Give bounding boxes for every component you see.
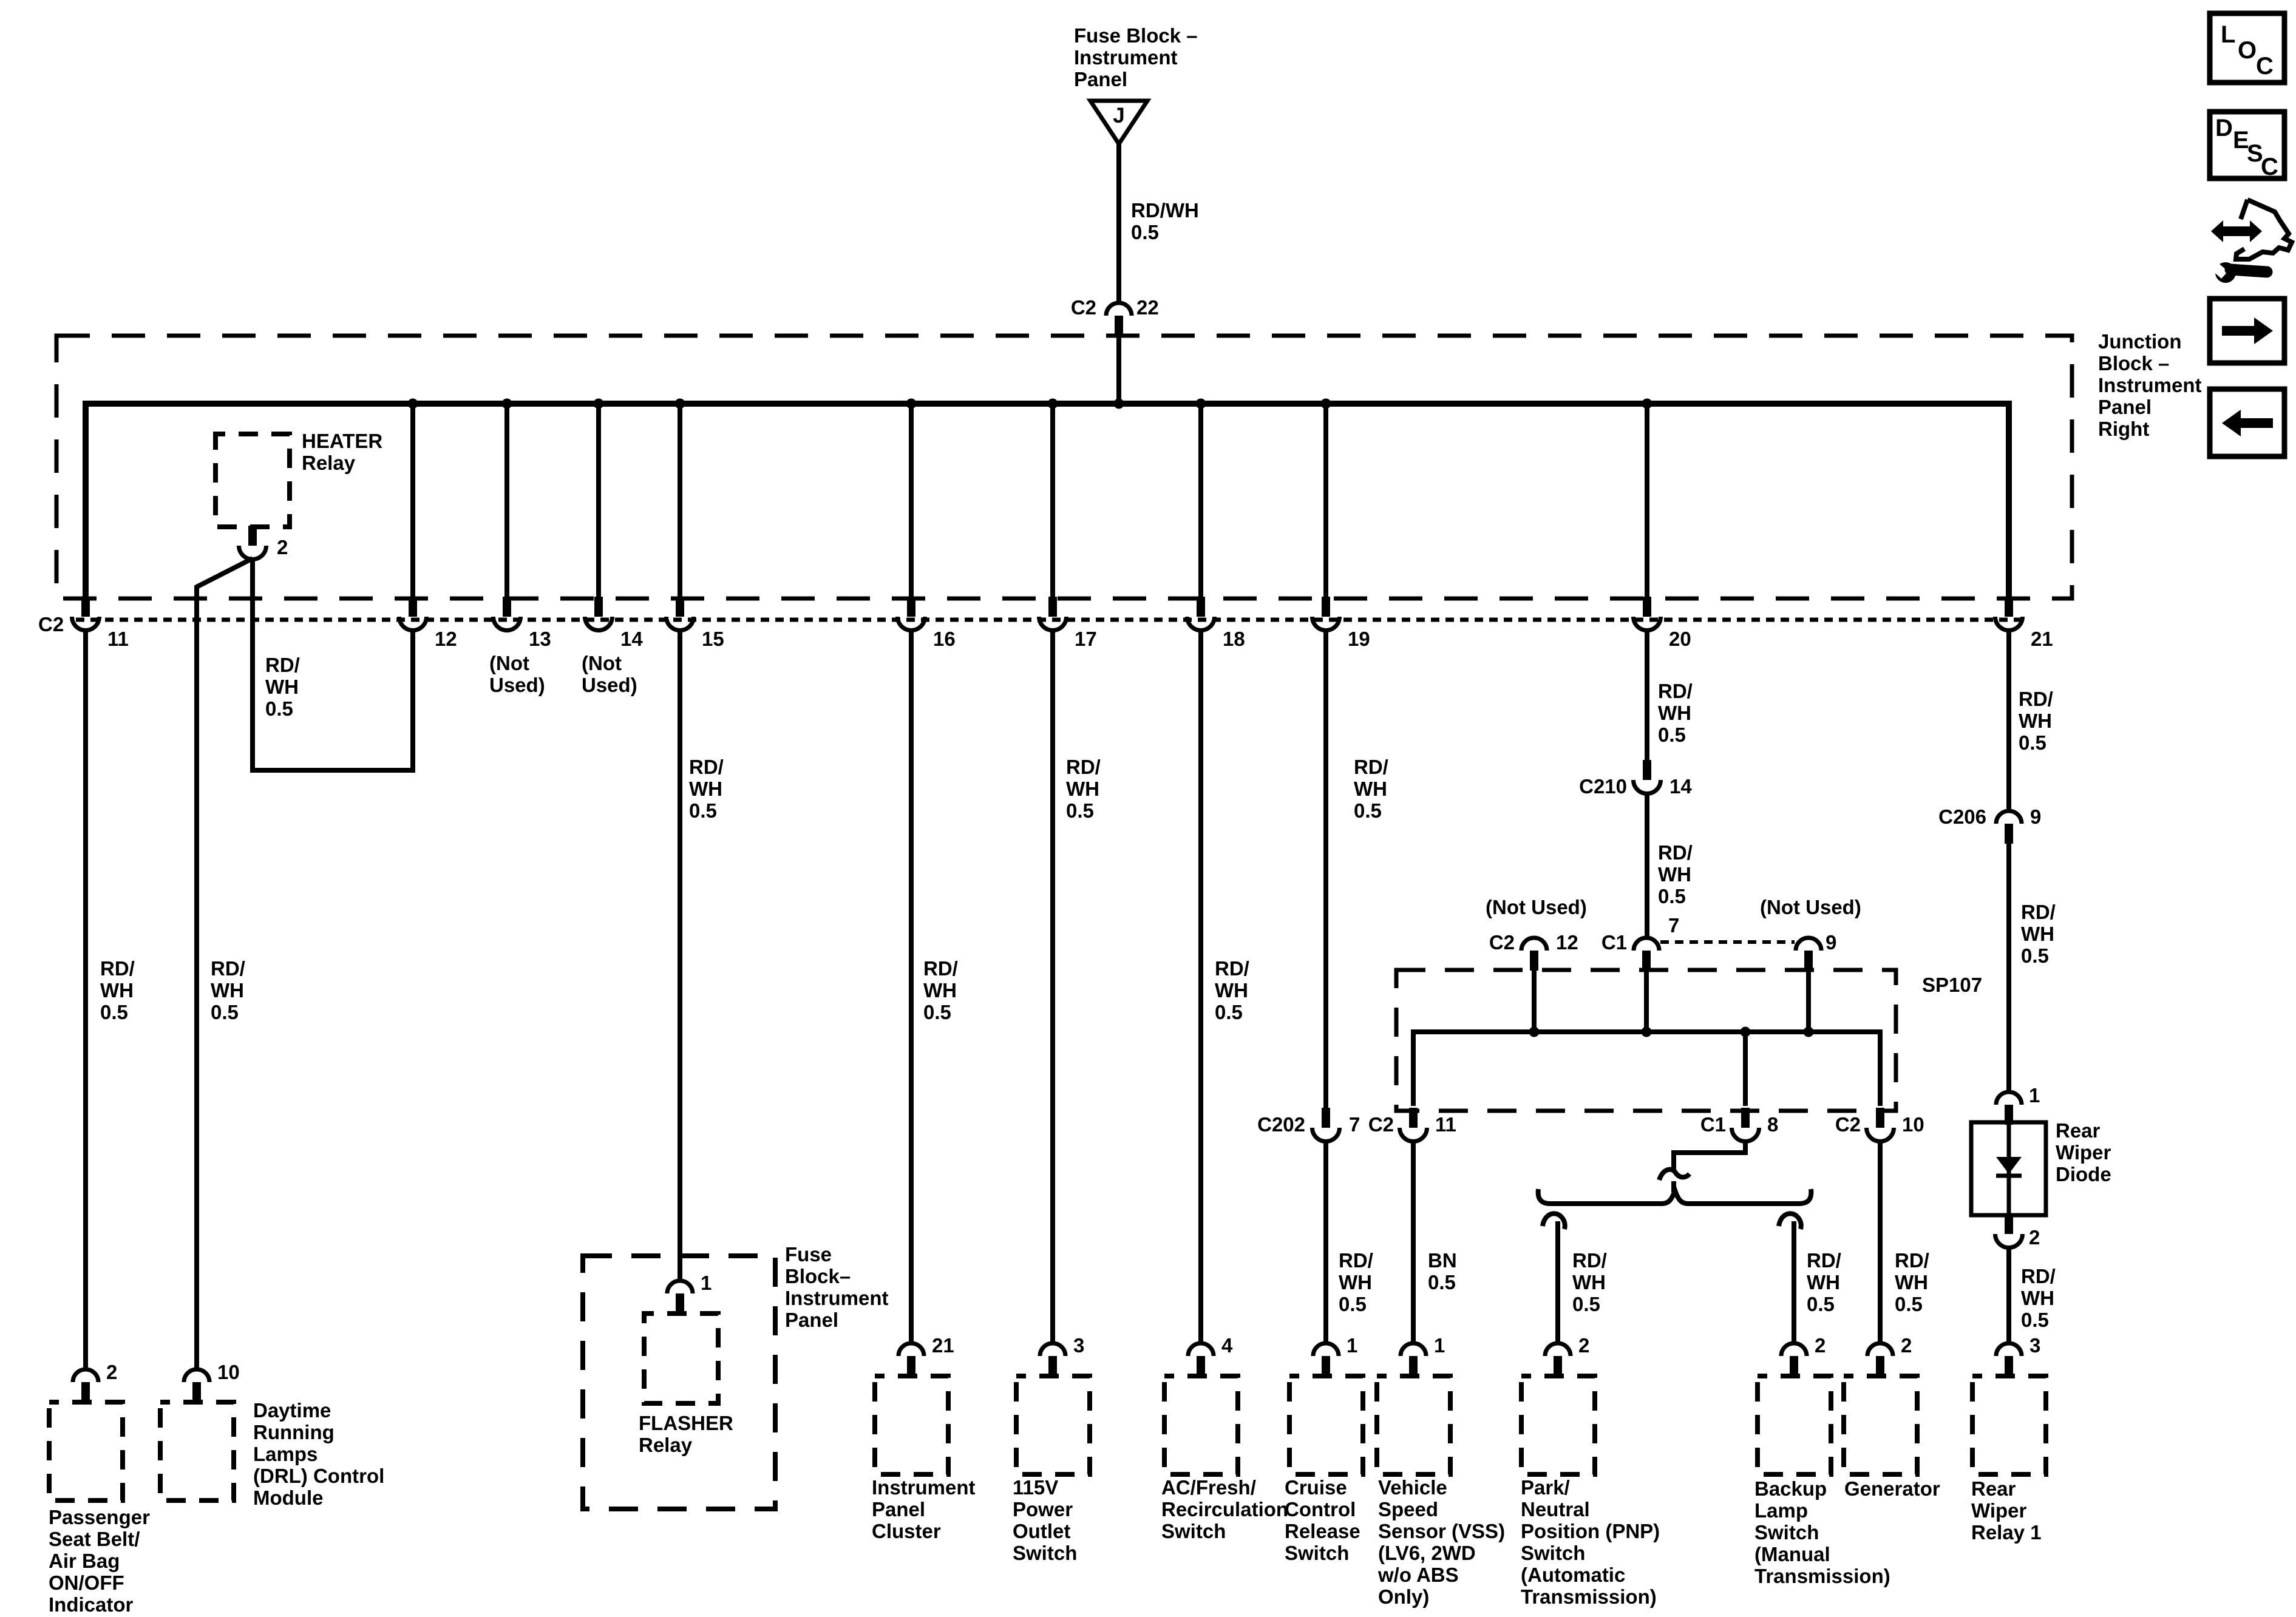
connector C2 pin 19 (junction block bottom) xyxy=(1313,597,1340,631)
wire: RD/WH 0.5 C206 to rear wiper diode xyxy=(2006,844,2011,1092)
Rear Wiper Relay 1 pin connector xyxy=(1996,1343,2022,1376)
svg-text:22: 22 xyxy=(1136,296,1159,319)
svg-text:C1: C1 xyxy=(1601,931,1627,954)
connector C2 pin 18 (junction block bottom) xyxy=(1187,597,1215,631)
svg-text:1: 1 xyxy=(2029,1084,2040,1107)
AC/Fresh/Recirculation Switch (dashed box) xyxy=(1164,1376,1238,1474)
svg-text:20: 20 xyxy=(1669,628,1691,650)
svg-text:RD/WH0.5: RD/WH0.5 xyxy=(1572,1249,1607,1315)
wire: bus drop to pin 18 xyxy=(1198,404,1203,597)
Cruise Control Release Switch pin connector xyxy=(1313,1343,1339,1376)
svg-text:2: 2 xyxy=(1578,1334,1589,1357)
connector C2 pin 12 (junction block bottom) xyxy=(399,597,427,631)
splice pack SP107 (dashed box) xyxy=(1396,970,1896,1111)
svg-text:C: C xyxy=(2256,53,2274,80)
wire: RD/WH 0.5 C210 to splice pack C1-7 xyxy=(1645,793,1649,938)
svg-text:(NotUsed): (NotUsed) xyxy=(582,652,637,696)
svg-text:12: 12 xyxy=(1556,931,1578,954)
junction node at bus / pin 15 drop xyxy=(675,399,685,409)
svg-text:C: C xyxy=(2261,154,2278,180)
connector C2 pin 12 of SP107 (not used) xyxy=(1521,938,1547,971)
connector C2 pin 11 (junction block bottom) xyxy=(72,597,100,631)
svg-text:RD/WH0.5: RD/WH0.5 xyxy=(689,756,724,822)
Backup Lamp Switch (dashed box) xyxy=(1758,1376,1831,1474)
wire break symbol on C1-8 branch xyxy=(1659,1170,1690,1180)
connector C2 pin 11 (SP107 bottom) xyxy=(1400,1108,1427,1142)
svg-text:RD/WH0.5: RD/WH0.5 xyxy=(1066,756,1101,822)
connector C206 pin 9 (inline) xyxy=(1996,811,2022,844)
connector C210 pin 14 (inline) xyxy=(1634,760,1661,794)
svg-text:8: 8 xyxy=(1767,1113,1778,1136)
svg-text:FLASHERRelay: FLASHERRelay xyxy=(639,1412,733,1456)
wire: RD/WH 0.5 heater pin 2 to DRL module xyxy=(197,558,253,1369)
junction node at bus / C2-22 feed xyxy=(1114,399,1124,409)
115V Power Outlet Switch (dashed box) xyxy=(1016,1376,1090,1474)
svg-text:21: 21 xyxy=(932,1334,954,1357)
svg-text:RD/WH0.5: RD/WH0.5 xyxy=(1215,957,1249,1023)
junction node at bus / pin 16 drop xyxy=(906,399,917,409)
svg-text:14: 14 xyxy=(1669,775,1692,798)
option brace (splice alternatives) xyxy=(1538,1189,1812,1204)
Vehicle Speed Sensor (VSS) (dashed box) xyxy=(1377,1376,1450,1474)
wire: bus drop to pin 15 xyxy=(678,404,682,597)
Passenger Seat Belt/Air Bag ON/OFF Indicator (dashed box) xyxy=(49,1402,123,1500)
svg-text:17: 17 xyxy=(1075,628,1097,650)
svg-text:10: 10 xyxy=(1902,1113,1924,1136)
svg-text:(Not Used): (Not Used) xyxy=(1486,896,1587,918)
wire: bus drop to pin 20 xyxy=(1645,404,1649,597)
wire: C2-22 stub to internal bus xyxy=(1116,336,1121,404)
Park/Neutral Position (PNP) Switch pin connector xyxy=(1545,1343,1571,1376)
svg-text:9: 9 xyxy=(1826,931,1836,954)
svg-text:VehicleSpeedSensor (VSS)(LV6,: VehicleSpeedSensor (VSS)(LV6, 2WDw/o ABS… xyxy=(1377,1476,1505,1608)
svg-text:21: 21 xyxy=(2031,628,2053,650)
icon: adjust/repair (hand with wrench) xyxy=(2210,200,2292,283)
wire: RD/WH 0.5 pin 21 to C206 xyxy=(2006,629,2011,811)
wire: RD/WH 0.5 option to PNP switch xyxy=(1555,1221,1560,1343)
wire break hook (backup lamp option) xyxy=(1779,1213,1801,1229)
connector C2 pin 15 (junction block bottom) xyxy=(667,597,694,631)
Park/Neutral Position (PNP) Switch (dashed box) xyxy=(1521,1376,1595,1474)
svg-text:2: 2 xyxy=(1815,1334,1826,1357)
icon: LOC box xyxy=(2210,13,2284,83)
svg-text:C2: C2 xyxy=(1071,296,1096,319)
115V Power Outlet Switch pin connector xyxy=(1040,1343,1065,1376)
junction node at bus / pin 18 drop xyxy=(1196,399,1206,409)
Daytime Running Lamps (DRL) Control Module pin connector xyxy=(184,1369,209,1402)
svg-text:115VPowerOutletSwitch: 115VPowerOutletSwitch xyxy=(1013,1476,1077,1564)
wire: RD/WH 0.5 pin 11 to passenger seat belt indicator xyxy=(83,629,88,1369)
svg-text:2: 2 xyxy=(106,1361,117,1383)
wire: RD/WH 0.5 pin 19 to C202 xyxy=(1323,629,1328,1108)
wire: RD/WH 0.5 pin 15 to flasher relay xyxy=(678,629,682,1281)
svg-text:9: 9 xyxy=(2030,805,2041,828)
svg-text:L: L xyxy=(2221,21,2235,48)
wire: SP107 bus drop to C1-8 xyxy=(1743,1032,1748,1106)
svg-text:PassengerSeat Belt/Air BagON/O: PassengerSeat Belt/Air BagON/OFFIndicato… xyxy=(49,1506,150,1616)
wire: bus drop to pin 19 xyxy=(1323,404,1328,597)
svg-text:10: 10 xyxy=(217,1361,240,1383)
wire: RD/WH 0.5 pin 16 to instrument panel cluster xyxy=(909,629,914,1343)
wire: RD/WH 0.5 option to backup lamp switch xyxy=(1792,1221,1796,1343)
svg-text:C206: C206 xyxy=(1938,805,1986,828)
svg-text:HEATERRelay: HEATERRelay xyxy=(302,430,382,474)
svg-text:C2: C2 xyxy=(1489,931,1515,954)
wire: bus drop to pin 13 xyxy=(504,404,509,597)
connector C2 pin 16 (junction block bottom) xyxy=(898,597,925,631)
svg-text:19: 19 xyxy=(1348,628,1370,650)
svg-text:15: 15 xyxy=(702,628,724,650)
Instrument Panel Cluster (dashed box) xyxy=(875,1376,948,1474)
FLASHER relay (dashed box) xyxy=(644,1314,718,1403)
svg-text:AC/Fresh/RecirculationSwitch: AC/Fresh/RecirculationSwitch xyxy=(1161,1476,1288,1542)
dotted connector face between C1-7 and pin 9 xyxy=(1660,940,1795,944)
power symbol J (Fuse Block triangle) xyxy=(1090,101,1147,144)
heater relay pin 2 connector xyxy=(239,526,267,560)
svg-text:RD/WH0.5: RD/WH0.5 xyxy=(1354,756,1388,822)
Rear Wiper Relay 1 (dashed box) xyxy=(1972,1376,2046,1474)
wire: heater relay pin 2 loop to pin 12 xyxy=(253,558,413,770)
svg-text:RD/WH0.5: RD/WH0.5 xyxy=(211,957,245,1023)
connector C2 pin 17 (junction block bottom) xyxy=(1039,597,1067,631)
svg-text:RD/WH0.5: RD/WH0.5 xyxy=(1807,1249,1841,1315)
svg-text:13: 13 xyxy=(529,628,551,650)
svg-text:7: 7 xyxy=(1349,1113,1360,1136)
svg-text:RD/WH0.5: RD/WH0.5 xyxy=(2021,901,2056,967)
svg-text:RD/WH0.5: RD/WH0.5 xyxy=(100,957,135,1023)
rear wiper diode pin 1 connector xyxy=(1996,1092,2022,1125)
connector pin 9 of SP107 (not used) xyxy=(1796,938,1821,971)
svg-text:C2: C2 xyxy=(1835,1113,1861,1136)
junction block connector face C2 (dotted line) xyxy=(76,618,2025,622)
icon: arrow left box xyxy=(2210,389,2284,456)
junction node at bus / pin 12 drop xyxy=(408,399,418,409)
Daytime Running Lamps (DRL) Control Module (dashed box) xyxy=(160,1402,234,1500)
Generator (dashed box) xyxy=(1844,1376,1917,1474)
svg-text:RD/WH0.5: RD/WH0.5 xyxy=(1658,680,1693,746)
wire: SP107 pin 12 stub to splice bus xyxy=(1532,971,1537,1032)
wire: RD/WH 0.5 SP107 C1-8 toward PNP/backup options xyxy=(1674,1141,1745,1170)
connector C1 pin 8 (SP107 bottom) xyxy=(1732,1108,1759,1142)
rear wiper diode pin 2 connector xyxy=(1995,1214,2023,1248)
connector C2 pin 20 (junction block bottom) xyxy=(1634,597,1661,631)
wire: BN 0.5 SP107 C2-11 to vehicle speed sensor xyxy=(1411,1141,1416,1343)
svg-text:C1: C1 xyxy=(1700,1113,1726,1136)
svg-text:2: 2 xyxy=(1901,1334,1912,1357)
wire: RD/WH 0.5 from J to C2-22 xyxy=(1116,144,1121,303)
svg-text:1: 1 xyxy=(701,1272,712,1294)
junction node on SP107 bus at x=2979 xyxy=(1804,1027,1814,1037)
wire: RD/WH 0.5 pin 17 to 115V power outlet switch xyxy=(1050,629,1055,1343)
svg-text:4: 4 xyxy=(1221,1334,1233,1357)
junction node at bus / pin 17 drop xyxy=(1048,399,1058,409)
connector C2 pin 14 (junction block bottom) xyxy=(585,597,613,631)
svg-text:1: 1 xyxy=(1347,1334,1357,1357)
wire: SP107 pin 7 stub to splice bus xyxy=(1644,971,1649,1032)
junction node at bus / pin 20 drop xyxy=(1642,399,1652,409)
HEATER relay (dashed box) xyxy=(216,434,290,527)
svg-text:Fuse Block –InstrumentPanel: Fuse Block –InstrumentPanel xyxy=(1074,24,1198,90)
junction node at bus / pin 13 drop xyxy=(502,399,512,409)
wire: RD/WH 0.5 pin 20 to C210 xyxy=(1645,629,1649,760)
svg-text:Park/NeutralPosition (PNP)Swit: Park/NeutralPosition (PNP)Switch(Automat… xyxy=(1521,1476,1660,1608)
svg-text:18: 18 xyxy=(1223,628,1245,650)
rear wiper diode (box with diode symbol) xyxy=(1971,1122,2046,1215)
svg-text:O: O xyxy=(2238,37,2257,64)
connector C2 pin 22 (junction block top) xyxy=(1106,303,1132,336)
svg-text:RearWiperRelay 1: RearWiperRelay 1 xyxy=(1971,1477,2042,1544)
svg-text:3: 3 xyxy=(2029,1334,2040,1357)
svg-text:RD/WH0.5: RD/WH0.5 xyxy=(1131,199,1199,243)
Instrument Panel Cluster pin connector xyxy=(898,1343,924,1376)
svg-text:InstrumentPanelCluster: InstrumentPanelCluster xyxy=(872,1476,976,1542)
wire: junction block internal bus xyxy=(86,404,2009,597)
wire: bus drop to pin 17 xyxy=(1050,404,1055,597)
svg-text:RD/WH0.5: RD/WH0.5 xyxy=(1895,1249,1929,1315)
svg-text:RD/WH0.5: RD/WH0.5 xyxy=(265,654,300,720)
AC/Fresh/Recirculation Switch pin connector xyxy=(1188,1343,1214,1376)
svg-text:RD/WH0.5: RD/WH0.5 xyxy=(2019,688,2053,754)
wire: SP107 pin 9 stub to splice bus xyxy=(1806,971,1811,1032)
junction node at bus / pin 19 drop xyxy=(1321,399,1331,409)
wire: C1-8 branch into option brace xyxy=(1671,1181,1676,1192)
wire: RD/WH 0.5 C202 to cruise control release switch xyxy=(1323,1141,1328,1343)
svg-text:(NotUsed): (NotUsed) xyxy=(489,652,545,696)
connector C1 pin 7 of SP107 xyxy=(1634,938,1659,971)
junction block - instrument panel right (dashed outline) xyxy=(56,336,2072,598)
svg-text:SP107: SP107 xyxy=(1922,974,1982,996)
svg-text:DaytimeRunningLamps(DRL) Contr: DaytimeRunningLamps(DRL) ControlModule xyxy=(253,1399,384,1509)
wire: bus drop to pin 12 xyxy=(410,404,415,597)
fuse block - instrument panel (dashed box) xyxy=(583,1256,775,1509)
svg-text:RearWiperDiode: RearWiperDiode xyxy=(2056,1119,2111,1185)
svg-text:11: 11 xyxy=(107,628,129,650)
svg-text:FuseBlock–InstrumentPanel: FuseBlock–InstrumentPanel xyxy=(785,1243,889,1331)
Passenger Seat Belt/Air Bag ON/OFF Indicator pin connector xyxy=(73,1369,98,1402)
svg-text:14: 14 xyxy=(620,628,643,650)
wire: SP107 internal splice bus xyxy=(1413,1032,1880,1106)
svg-text:C2: C2 xyxy=(1368,1113,1394,1136)
svg-text:J: J xyxy=(1113,104,1124,127)
icon: arrow right box xyxy=(2210,299,2284,363)
connector C2 pin 21 (junction block bottom) xyxy=(1995,597,2023,631)
svg-text:RD/WH0.5: RD/WH0.5 xyxy=(1658,841,1693,907)
wire: RD/WH 0.5 SP107 C2-10 to generator xyxy=(1878,1141,1883,1343)
wire break hook (PNP option) xyxy=(1543,1213,1565,1229)
svg-text:Generator: Generator xyxy=(1844,1477,1940,1500)
svg-text:2: 2 xyxy=(2029,1226,2040,1249)
wire: bus drop to pin 16 xyxy=(909,404,914,597)
connector C2 pin 10 (SP107 bottom) xyxy=(1867,1108,1894,1142)
svg-text:16: 16 xyxy=(933,628,956,650)
svg-text:1: 1 xyxy=(1434,1334,1445,1357)
junction node on SP107 bus at x=2527 xyxy=(1529,1027,1540,1037)
svg-text:JunctionBlock –InstrumentPanel: JunctionBlock –InstrumentPanelRight xyxy=(2098,330,2202,440)
svg-text:BN0.5: BN0.5 xyxy=(1428,1249,1457,1293)
svg-text:7: 7 xyxy=(1668,914,1679,937)
svg-text:12: 12 xyxy=(435,628,457,650)
Backup Lamp Switch pin connector xyxy=(1781,1343,1807,1376)
svg-text:C210: C210 xyxy=(1579,775,1627,798)
svg-text:RD/WH0.5: RD/WH0.5 xyxy=(1339,1249,1373,1315)
svg-text:D: D xyxy=(2215,115,2233,141)
Vehicle Speed Sensor (VSS) pin connector xyxy=(1401,1343,1426,1376)
connector C2 pin 13 (junction block bottom) xyxy=(494,597,521,631)
svg-text:C202: C202 xyxy=(1257,1113,1305,1136)
svg-text:(Not Used): (Not Used) xyxy=(1760,896,1861,918)
flasher relay pin 1 connector xyxy=(667,1281,693,1314)
svg-text:3: 3 xyxy=(1073,1334,1084,1357)
svg-text:RD/WH0.5: RD/WH0.5 xyxy=(923,957,958,1023)
svg-text:RD/WH0.5: RD/WH0.5 xyxy=(2021,1265,2056,1331)
svg-text:11: 11 xyxy=(1435,1113,1456,1136)
wire: bus drop to pin 14 xyxy=(596,404,601,597)
svg-text:CruiseControlReleaseSwitch: CruiseControlReleaseSwitch xyxy=(1285,1476,1360,1564)
wire: RD/WH 0.5 diode to rear wiper relay 1 xyxy=(2006,1247,2011,1343)
icon: DESC box xyxy=(2210,112,2284,180)
Cruise Control Release Switch (dashed box) xyxy=(1289,1376,1363,1474)
svg-text:2: 2 xyxy=(277,536,288,558)
Generator pin connector xyxy=(1867,1343,1893,1376)
wire: RD/WH 0.5 pin 18 to AC/fresh/recirculation switch xyxy=(1198,629,1203,1343)
svg-text:C2: C2 xyxy=(38,613,64,636)
junction node on SP107 bus at x=2875 xyxy=(1741,1027,1751,1037)
connector C202 pin 7 (inline) xyxy=(1313,1108,1340,1142)
junction node on SP107 bus at x=2712 xyxy=(1642,1027,1652,1037)
junction node at bus / pin 14 drop xyxy=(594,399,604,409)
